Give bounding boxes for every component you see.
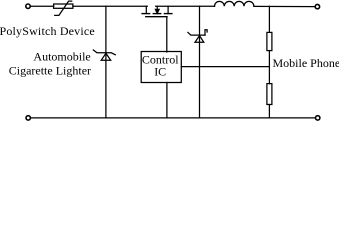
zener D1 triangle [101, 53, 111, 60]
wire top-left to polyswitch [30, 5, 53, 7]
wire control IC bottom to ground rail [166, 83, 168, 118]
polyswitch F1 body [54, 4, 73, 8]
zener D1 bar [93, 50, 115, 55]
mosfet Q1 drain stub [167, 6, 169, 13]
resistor R1 [267, 32, 272, 50]
wire rail to R1 [268, 6, 270, 32]
wire R2 to bottom rail [268, 105, 270, 118]
mosfet Q1 gate lead to control IC [166, 17, 168, 52]
mosfet Q1 body arrowhead [155, 9, 159, 13]
zener D2 cathode hook [205, 30, 207, 35]
mosfet Q1 body arrow stem [156, 6, 158, 10]
node: right zener column wire [199, 6, 201, 118]
polyswitch slash [55, 1, 72, 15]
bottom rail wire [31, 117, 316, 119]
mosfet Q1 gate line [146, 16, 167, 18]
mosfet Q1 drain bar [164, 13, 172, 15]
control IC U1 box [141, 52, 181, 83]
wire top rail right segment [156, 5, 215, 7]
terminal top-left [26, 4, 30, 8]
wire inductor to terminal top-right [254, 5, 315, 7]
terminal top-right [315, 4, 319, 8]
terminal bottom-left [26, 116, 30, 120]
wire polyswitch to mosfet source [73, 5, 147, 7]
wire R1 to R2 [268, 51, 270, 84]
zener D2 bar [188, 32, 205, 35]
resistor R2 [267, 84, 272, 105]
mosfet Q1 source stub [145, 6, 147, 13]
svg-text:Mobile Phone: Mobile Phone [273, 56, 339, 70]
terminal bottom-right [316, 116, 320, 120]
svg-text:Automobile: Automobile [33, 50, 90, 64]
svg-text:IC: IC [154, 65, 166, 79]
svg-text:PolySwitch Device: PolySwitch Device [0, 24, 95, 38]
mosfet Q1 body bar [153, 13, 160, 15]
svg-text:Cigarette Lighter: Cigarette Lighter [9, 64, 91, 78]
zener D2 triangle [195, 36, 204, 43]
node: left zener column wire [105, 6, 107, 118]
mosfet Q1 source bar [142, 13, 150, 15]
wire control IC output to mid node [181, 66, 269, 68]
inductor L1 [215, 1, 254, 6]
